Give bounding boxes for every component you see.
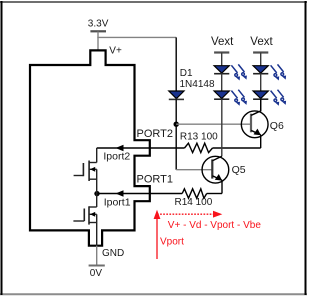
svg-text:GND: GND [102, 248, 124, 259]
svg-text:Vext: Vext [250, 36, 273, 48]
svg-text:D1: D1 [180, 68, 193, 79]
svg-text:Vext: Vext [211, 36, 234, 48]
svg-text:Iport1: Iport1 [104, 197, 131, 209]
svg-text:PORT2: PORT2 [137, 128, 173, 140]
svg-text:V+ - Vd - Vport - Vbe: V+ - Vd - Vport - Vbe [168, 220, 262, 231]
svg-text:Iport2: Iport2 [103, 150, 130, 162]
svg-text:R14 100: R14 100 [175, 197, 213, 208]
svg-text:Vport: Vport [160, 236, 184, 247]
svg-text:0V: 0V [90, 268, 103, 279]
svg-text:V+: V+ [109, 45, 122, 56]
svg-text:1N4148: 1N4148 [180, 79, 215, 90]
svg-text:R13 100: R13 100 [180, 132, 218, 143]
svg-text:PORT1: PORT1 [137, 174, 173, 186]
svg-text:Q6: Q6 [270, 120, 284, 132]
svg-text:3.3V: 3.3V [88, 19, 109, 30]
svg-text:Q5: Q5 [232, 164, 246, 176]
